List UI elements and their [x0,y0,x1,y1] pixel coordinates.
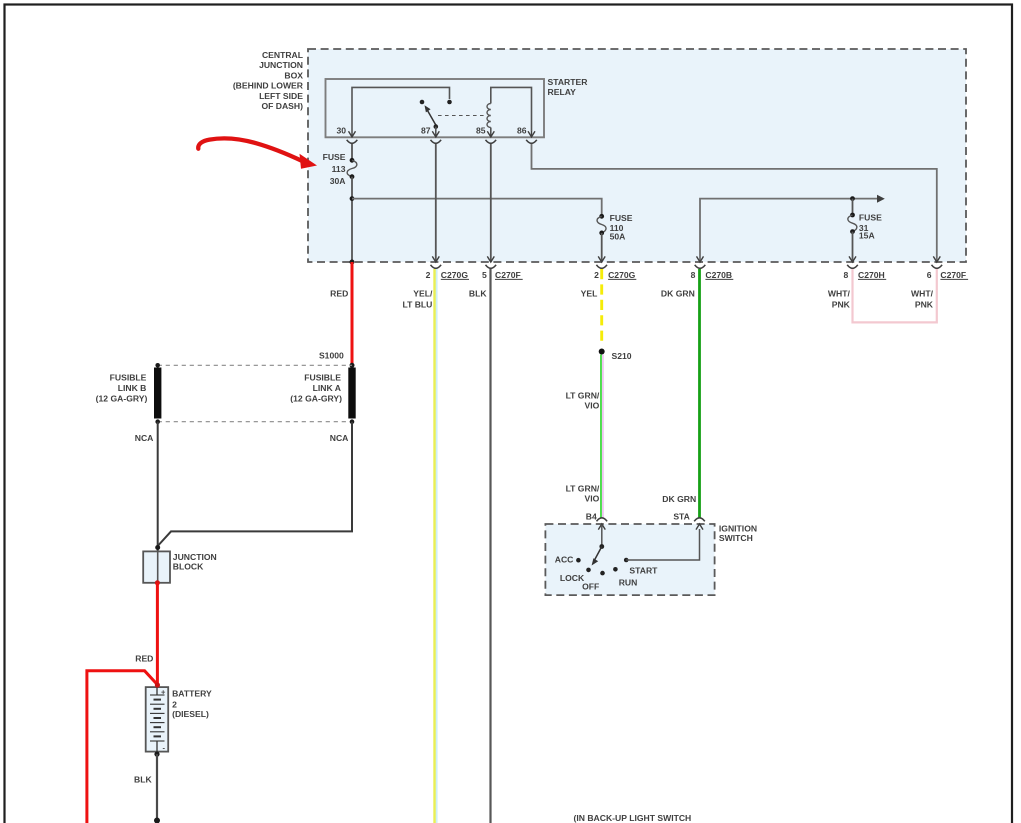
relay pin labels [336,126,526,136]
CJB exit connector arrows and arcs [432,256,940,262]
wire RED (CJB to S1000) [351,262,354,365]
starter relay U1 (box) [326,79,545,137]
CJB label [233,50,304,111]
svg-text:RED: RED [330,288,348,298]
svg-text:S210: S210 [612,351,632,361]
node: RED wire junction at CJB edge [350,260,355,265]
LT GRN/VIO labels [566,390,600,503]
svg-text:113: 113 [332,164,346,174]
ignition switch wiper [592,544,605,565]
wire: bus to fuse 31 with off-page arrow [700,195,885,262]
relay fixed contact (to pin 30) [447,100,452,105]
svg-text:CENTRAL: CENTRAL [262,50,303,60]
relay actuation dashed link [438,115,487,117]
wire: pin 85 down to connector 5 C270F [490,144,492,262]
svg-text:PNK: PNK [915,300,934,310]
wire: pin 87 down to connector 2 C270G [435,144,437,262]
wire NCA from link A [158,422,352,546]
svg-text:BLOCK: BLOCK [173,562,204,572]
svg-text:C270H: C270H [858,270,885,280]
ignition switch label [719,524,757,544]
fuse 113 30A [347,158,357,179]
node: ground splice at bottom [154,818,160,823]
svg-text:VIO: VIO [584,493,599,503]
svg-text:(DIESEL): (DIESEL) [172,709,209,719]
svg-text:RED: RED [135,654,153,664]
fusible link A label [290,372,342,403]
svg-text:NCA: NCA [135,433,154,443]
svg-text:WHT/: WHT/ [911,288,934,298]
svg-text:FUSE: FUSE [859,212,882,222]
fuse 31 15A [848,213,857,234]
wire RED branch to left [87,671,157,823]
svg-text:START: START [629,566,658,576]
B4 entry arrow and wire [598,524,605,547]
switch position labels [555,555,658,592]
fuse 31 label [859,212,882,240]
svg-text:(BEHIND LOWER: (BEHIND LOWER [233,81,304,91]
svg-text:LT BLU: LT BLU [402,300,432,310]
wire: fuse 31 down to connector [852,232,854,262]
svg-text:30A: 30A [330,176,346,186]
fusible link A [348,368,355,419]
svg-text:50A: 50A [610,232,626,242]
fusible link B [154,368,161,419]
relay switch arm (pin 87) [425,105,439,131]
svg-text:ACC: ACC [555,555,574,565]
svg-text:LINK A: LINK A [313,383,341,393]
wire RED junction block to battery [156,583,159,685]
wire: fuse 113 to CJB exit [351,177,353,262]
svg-text:YEL/: YEL/ [413,288,433,298]
wire LT GRN/VIO [601,355,603,519]
relay pin terminal arrows at box edge [349,131,536,137]
relay pin connector arcs [347,140,537,144]
B4 and STA labels [586,512,690,522]
svg-text:STARTER: STARTER [548,77,589,87]
svg-text:2: 2 [426,270,431,280]
svg-text:(12 GA-GRY): (12 GA-GRY) [96,394,148,404]
svg-text:DK GRN: DK GRN [661,288,695,298]
svg-text:LT GRN/: LT GRN/ [566,484,600,494]
svg-text:JUNCTION: JUNCTION [259,60,303,70]
svg-text:C270G: C270G [441,270,469,280]
relay coil wiring to pins 85 and 86 [491,87,532,131]
svg-text:6: 6 [927,270,932,280]
wire YEL/LT BLU [435,269,437,823]
svg-text:JUNCTION: JUNCTION [173,552,217,562]
svg-text:LT GRN/: LT GRN/ [566,390,600,400]
svg-text:B4: B4 [586,512,597,522]
relay pin 30 internal wire [352,87,450,131]
svg-text:VIO: VIO [584,401,599,411]
svg-text:BATTERY: BATTERY [172,688,212,698]
connector pin numbers [426,270,932,280]
svg-text:C270B: C270B [705,270,732,280]
BLK label [134,774,152,784]
dashed tie (link bottoms) [155,419,354,424]
svg-text:PNK: PNK [832,300,851,310]
svg-text:LEFT SIDE: LEFT SIDE [259,91,303,101]
svg-text:YEL: YEL [581,288,598,298]
svg-text:LINK B: LINK B [118,383,147,393]
wire DK GRN [698,269,701,518]
wire: pin 30 to fuse 113 [351,144,353,160]
svg-text:FUSIBLE: FUSIBLE [304,372,341,382]
svg-text:2: 2 [594,270,599,280]
svg-text:IGNITION: IGNITION [719,524,757,534]
svg-text:C270G: C270G [608,270,636,280]
svg-text:WHT/: WHT/ [828,288,851,298]
svg-text:SWITCH: SWITCH [719,533,753,543]
node S1000 [350,363,355,368]
red annotation arrow [198,138,317,168]
svg-text:FUSE: FUSE [610,213,633,223]
svg-text:S1000: S1000 [319,351,344,361]
svg-text:87: 87 [421,126,431,136]
svg-text:DK GRN: DK GRN [662,494,696,504]
connector names [441,270,966,280]
svg-text:8: 8 [844,270,849,280]
fuse 110 50A [597,214,606,235]
svg-text:C270F: C270F [940,270,966,280]
wire YEL dashed [600,269,603,346]
svg-text:BLK: BLK [134,774,152,784]
NCA labels [135,433,349,443]
wire: bus from fuse 113 to fuse 110 [352,199,602,217]
DK GRN label [662,494,696,504]
battery label [172,688,212,719]
wire WHT/PNK loop [853,269,937,322]
back-up light switch note [574,813,692,823]
node: junction above block [155,545,160,550]
S210 label [612,351,632,361]
wire: fuse 110 down to connector [601,233,603,262]
connector arcs at ignition switch [597,518,705,522]
wire: tap down to fuse 31 [852,199,854,215]
svg-text:5: 5 [482,270,487,280]
svg-text:(12 GA-GRY): (12 GA-GRY) [290,394,342,404]
splice S210 [599,349,605,355]
fuse 113 label [323,152,346,186]
node: battery positive terminal [155,682,160,687]
svg-text:FUSIBLE: FUSIBLE [110,372,147,382]
dashed tie (link tops) [155,363,352,368]
svg-text:RELAY: RELAY [548,87,577,97]
fuse 110 label [610,213,633,241]
svg-text:15A: 15A [859,231,875,241]
node: battery negative [154,752,159,757]
wire: pin 86 over to connector 6 C270F [532,144,937,262]
svg-text:86: 86 [517,126,527,136]
svg-text:30: 30 [336,126,346,136]
svg-text:BLK: BLK [469,288,487,298]
svg-text:8: 8 [691,270,696,280]
node: junction block bottom [155,580,160,585]
wire colour labels row [330,288,934,309]
central junction box CJB (dashed box) [308,49,966,262]
svg-text:NCA: NCA [330,433,349,443]
ignition switch box [545,524,714,595]
svg-text:OF DASH): OF DASH) [261,101,303,111]
junction block [143,551,170,582]
node: fuse113 bus junction [350,196,355,201]
relay open contact [420,100,425,105]
switch position contacts [576,558,628,576]
relay coil [487,104,491,128]
svg-text:(IN BACK-UP LIGHT SWITCH: (IN BACK-UP LIGHT SWITCH [574,813,692,823]
starter relay label [548,77,589,97]
svg-text:+: + [161,688,166,697]
svg-text:85: 85 [476,126,486,136]
svg-text:C270F: C270F [495,270,521,280]
RED label [135,654,153,664]
splice S1000 label [319,351,344,361]
battery 2 (diesel) [146,687,169,752]
node: fuse 31 tap [850,196,855,201]
wire NCA from link B [157,422,159,552]
wire BLK (to back-up light switch) [489,269,491,823]
svg-text:FUSE: FUSE [323,152,346,162]
START contact wire to STA [626,524,703,560]
svg-text:BOX: BOX [284,70,303,80]
wire BLK from battery [156,754,158,820]
fusible link B label [96,372,148,403]
junction block label [173,552,217,572]
svg-text:STA: STA [673,512,690,522]
svg-text:OFF: OFF [582,581,599,591]
svg-text:RUN: RUN [619,578,638,588]
